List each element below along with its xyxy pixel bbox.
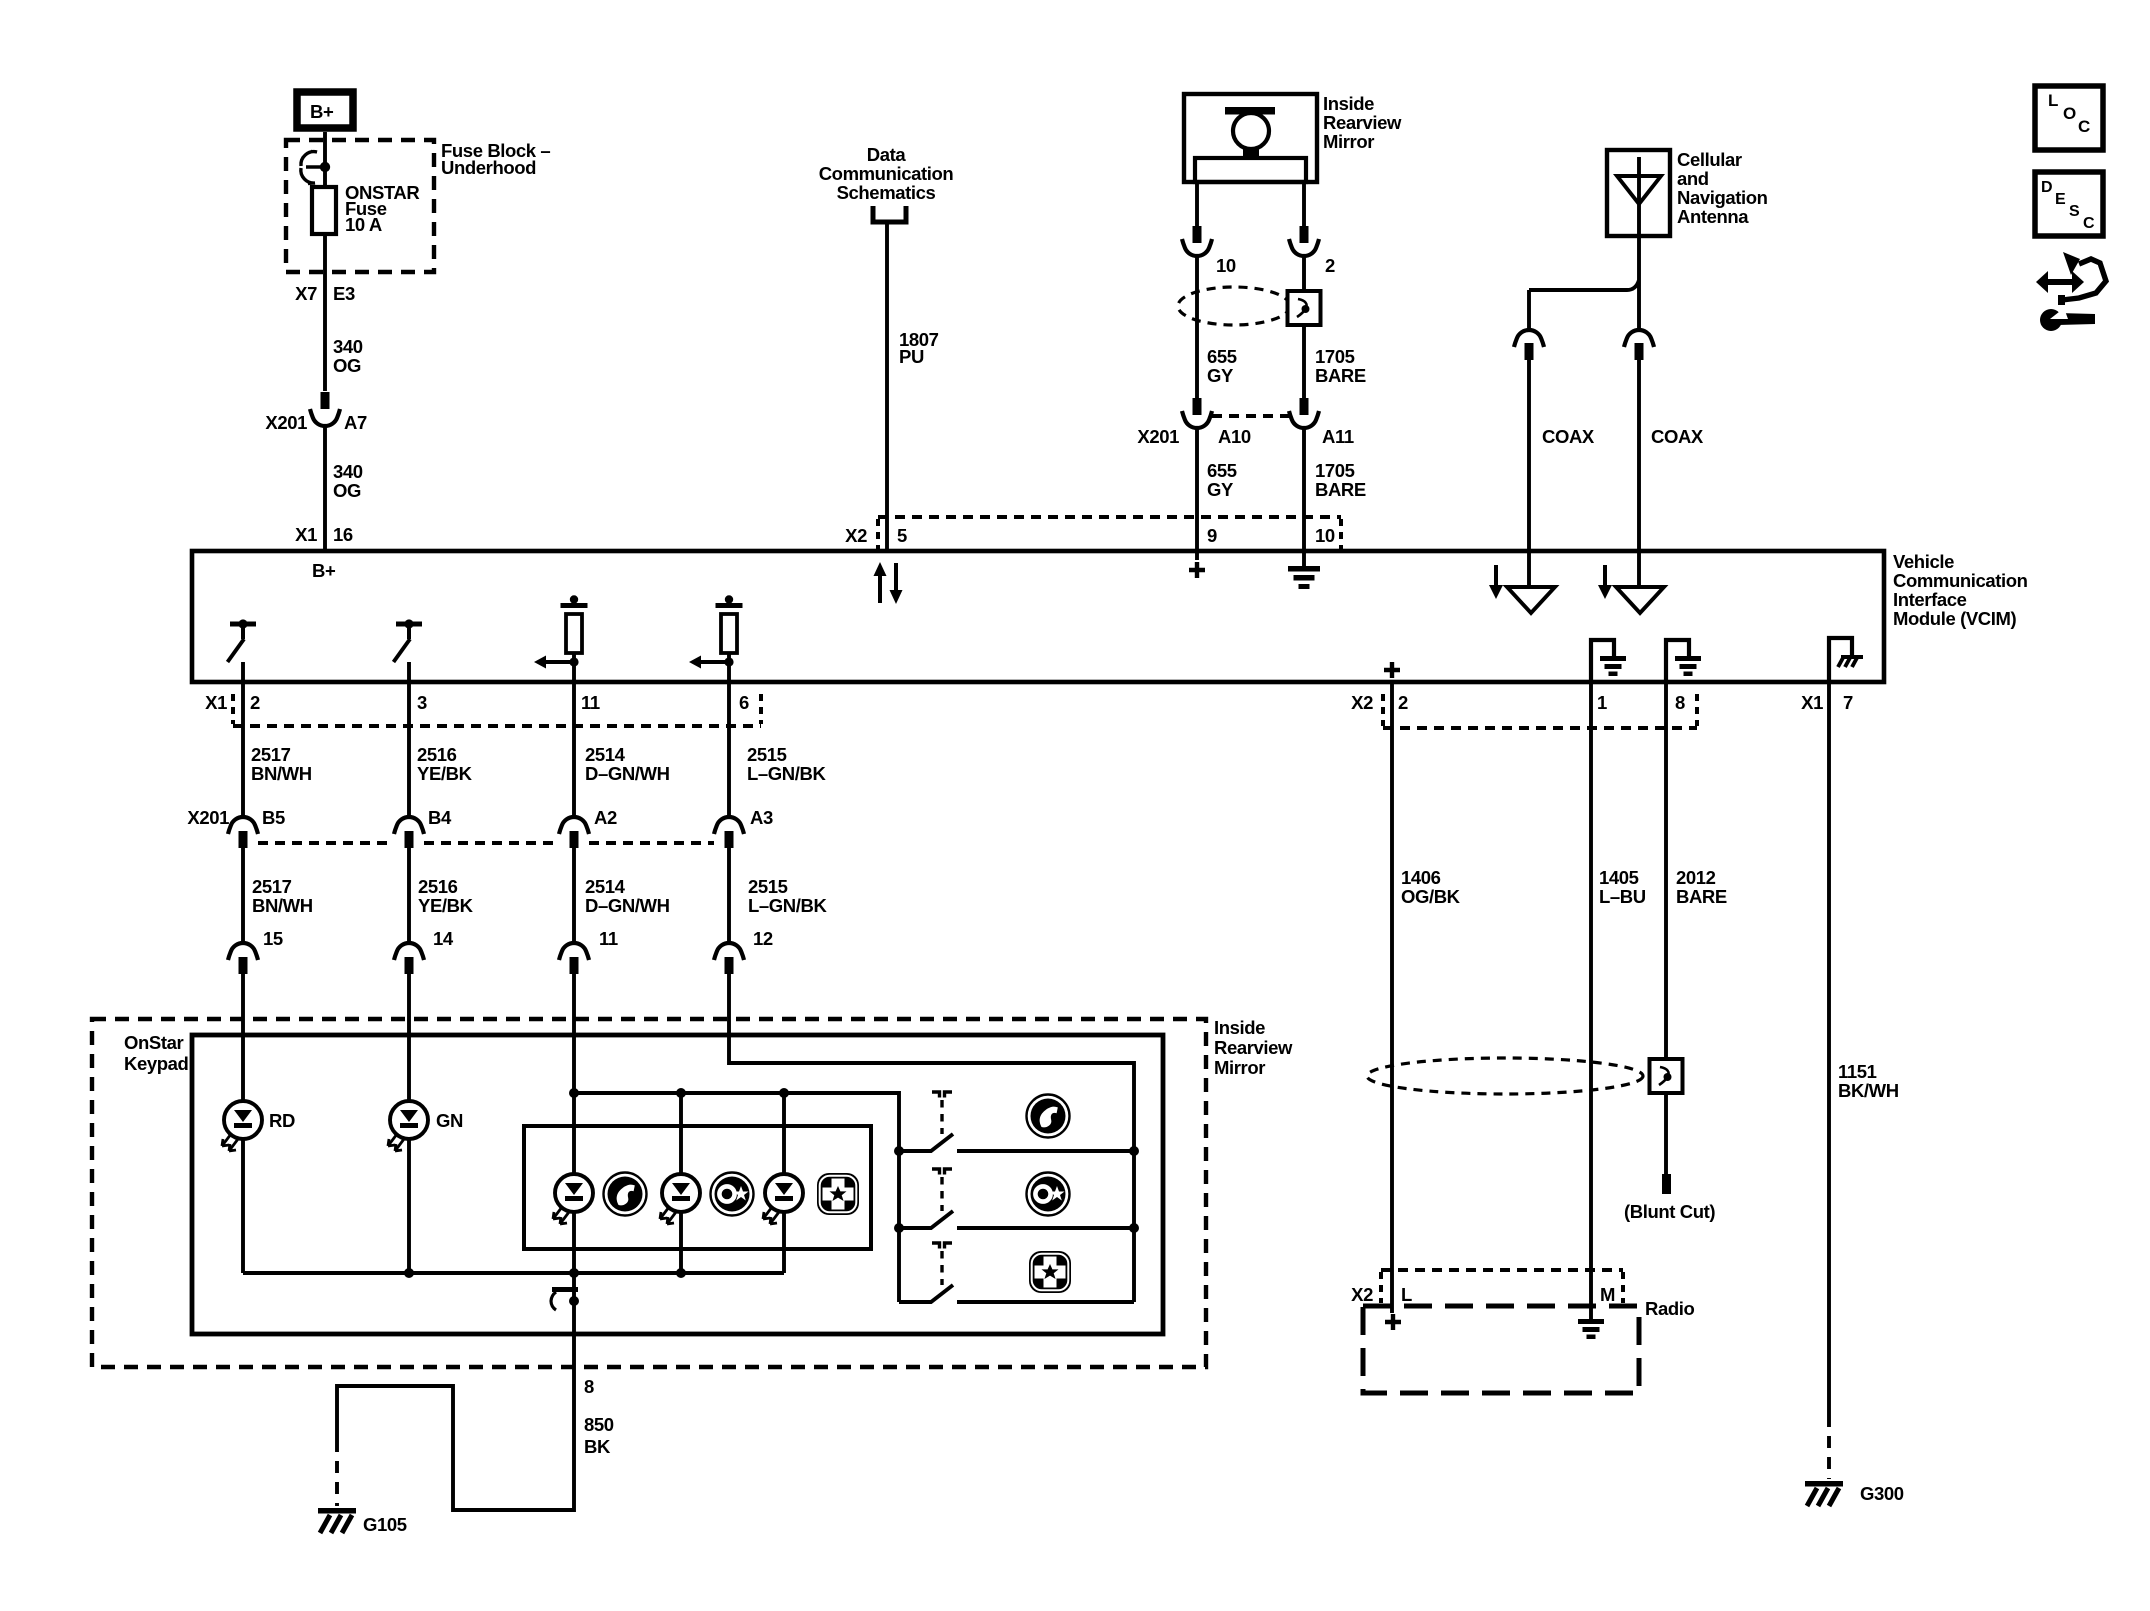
svg-text:D–GN/WH: D–GN/WH: [585, 763, 670, 784]
wire 1705 BARE lower: [1302, 428, 1306, 551]
svg-text:B5: B5: [262, 807, 285, 828]
VCIM label: [1893, 551, 2028, 629]
connector X201 B5: [228, 817, 258, 848]
svg-text:9: 9: [1207, 525, 1217, 546]
ground radio: [1578, 1319, 1604, 1339]
svg-text:2: 2: [1325, 255, 1335, 276]
svg-text:E3: E3: [333, 283, 355, 304]
svg-text:G300: G300: [1860, 1483, 1904, 1504]
svg-text:C: C: [2078, 117, 2090, 136]
svg-text:L: L: [2048, 91, 2058, 110]
cluster box: [524, 1126, 871, 1249]
svg-text:Rearview: Rearview: [1323, 112, 1402, 133]
antenna input symbol left inside VCIM: [1489, 551, 1555, 613]
wire coax left drop: [1527, 290, 1531, 330]
svg-text:1151: 1151: [1838, 1061, 1877, 1082]
svg-text:COAX: COAX: [1542, 426, 1595, 447]
svg-text:A3: A3: [750, 807, 773, 828]
node switch1 left: [894, 1146, 904, 1156]
wire label 2514 D-GN/WH upper: [585, 744, 670, 784]
shield drain box (radio): [1650, 1059, 1683, 1093]
svg-text:7: 7: [1843, 692, 1853, 713]
svg-text:M: M: [1600, 1284, 1615, 1305]
svg-text:G105: G105: [363, 1514, 407, 1535]
svg-text:2514: 2514: [585, 744, 626, 765]
svg-text:10: 10: [1216, 255, 1236, 276]
case clip symbol: [551, 1287, 579, 1310]
svg-text:Vehicle: Vehicle: [1893, 551, 1954, 572]
svg-text:2515: 2515: [747, 744, 787, 765]
wire 2514 upper: [572, 682, 576, 817]
wire A7 to VCIM pin 16: [323, 426, 327, 551]
svg-text:COAX: COAX: [1651, 426, 1704, 447]
wire label 2516 YE/BK lower: [418, 876, 474, 916]
LED cluster 1: [553, 1174, 593, 1224]
connector strip X201 dashed (mirror): [1212, 414, 1289, 418]
switch row OnStar: [899, 1169, 1134, 1228]
wire label 2515 L-GN/BK upper: [747, 744, 826, 784]
wire mirror pin 10: [1195, 182, 1199, 226]
connector strip X2 upper dashed: [878, 517, 1341, 549]
wire mirror pin 2: [1302, 182, 1306, 226]
cellular and navigation antenna box: [1607, 150, 1670, 236]
svg-text:Keypad: Keypad: [124, 1053, 189, 1074]
wire label 1406 OG/BK: [1401, 867, 1461, 907]
wire 1807 PU: [885, 224, 889, 551]
svg-text:5: 5: [897, 525, 907, 546]
svg-text:D–GN/WH: D–GN/WH: [585, 895, 670, 916]
node anode bus LED3: [779, 1088, 789, 1098]
wire 2515 upper: [727, 682, 731, 817]
connector mirror pin 2: [1289, 226, 1319, 256]
svg-text:GY: GY: [1207, 479, 1234, 500]
node anode bus tap: [569, 1088, 579, 1098]
svg-text:15: 15: [263, 928, 283, 949]
svg-text:12: 12: [753, 928, 773, 949]
LOC reference box: [2035, 86, 2103, 150]
svg-text:C: C: [2083, 215, 2095, 232]
switch symbol VCIM pin 3: [394, 619, 423, 662]
connector strip X2 lower dashed: [1383, 694, 1697, 728]
svg-text:1: 1: [1597, 692, 1607, 713]
svg-text:A11: A11: [1322, 426, 1354, 447]
svg-text:D: D: [2041, 179, 2053, 196]
svg-text:and: and: [1677, 168, 1709, 189]
svg-text:BN/WH: BN/WH: [252, 895, 313, 916]
connector coax left: [1514, 330, 1544, 360]
wire 2012 BARE: [1664, 682, 1668, 1174]
wire pin15 into keypad: [241, 974, 245, 1101]
svg-text:10: 10: [1315, 525, 1335, 546]
wire 655 GY lower: [1195, 428, 1199, 551]
node switch2 right: [1129, 1223, 1139, 1233]
node switch2 left: [894, 1223, 904, 1233]
svg-text:1705: 1705: [1315, 346, 1355, 367]
wire label 850 BK: [584, 1414, 614, 1457]
svg-text:OG/BK: OG/BK: [1401, 886, 1461, 907]
svg-text:2516: 2516: [417, 744, 457, 765]
svg-text:Inside: Inside: [1323, 93, 1374, 114]
wire antenna feed: [1529, 236, 1639, 330]
connector X201 A2: [559, 817, 589, 848]
wire 2517 lower: [241, 848, 245, 943]
connector keypad pin 14: [394, 943, 424, 974]
svg-text:BK/WH: BK/WH: [1838, 1080, 1899, 1101]
svg-text:BARE: BARE: [1315, 479, 1366, 500]
svg-text:B+: B+: [312, 560, 336, 581]
wire label 2012 BARE: [1676, 867, 1727, 907]
wire resistor to pin 6: [727, 662, 731, 682]
wire label 2517 BN/WH upper: [251, 744, 312, 784]
wire 1405 L-BU: [1589, 682, 1593, 1319]
svg-text:X201: X201: [265, 412, 307, 433]
service icon wrench: [2040, 308, 2095, 331]
node cathode bus pin8: [569, 1268, 579, 1278]
svg-text:YE/BK: YE/BK: [418, 895, 474, 916]
svg-text:1705: 1705: [1315, 460, 1355, 481]
svg-text:A2: A2: [594, 807, 617, 828]
svg-text:2: 2: [250, 692, 260, 713]
svg-text:X2: X2: [845, 525, 867, 546]
pin label X1 7: [1801, 692, 1853, 713]
connector X201 A11: [1289, 398, 1319, 428]
wire pin14 into keypad: [407, 974, 411, 1101]
svg-text:Navigation: Navigation: [1677, 187, 1768, 208]
connector label X201 A10 A11: [1137, 426, 1353, 447]
svg-text:2517: 2517: [252, 876, 292, 897]
button OnStar (cluster): [711, 1173, 754, 1216]
fuse block underhood dashed box: [286, 140, 434, 272]
wire label 655 GY upper: [1207, 346, 1237, 386]
OnStar keypad label: [124, 1032, 189, 1074]
wire LED1 to bus: [572, 1212, 576, 1273]
off-page bracket: [873, 206, 906, 222]
svg-text:11: 11: [581, 692, 600, 713]
LED red: [222, 1101, 262, 1151]
wire clip to fuse: [323, 167, 327, 187]
LED green: [388, 1101, 428, 1151]
inside rearview mirror box (top): [1184, 94, 1317, 182]
wire dashed to G105: [335, 1440, 339, 1506]
wire label 340 OG lower: [333, 461, 363, 501]
wire dashed to G300: [1827, 1415, 1831, 1479]
wire 1151 BK/WH: [1827, 682, 1831, 1415]
svg-text:2517: 2517: [251, 744, 291, 765]
svg-text:BN/WH: BN/WH: [251, 763, 312, 784]
svg-text:O: O: [2063, 104, 2076, 123]
keypad mirror label: [1214, 1017, 1293, 1078]
data communication schematics label: [819, 144, 954, 203]
svg-text:OG: OG: [333, 355, 361, 376]
connector keypad pin 15: [228, 943, 258, 974]
svg-text:3: 3: [417, 692, 427, 713]
svg-text:8: 8: [1675, 692, 1685, 713]
node anode bus LED2: [676, 1088, 686, 1098]
wire 655 GY upper: [1195, 256, 1199, 398]
resistor symbol VCIM pin 11: [534, 595, 588, 668]
svg-text:6: 6: [739, 692, 749, 713]
wire 1705 BARE upper: [1302, 256, 1306, 398]
svg-text:X7: X7: [295, 283, 317, 304]
wire COAX right: [1637, 360, 1641, 551]
wire pin11 into keypad: [572, 974, 576, 1174]
svg-text:A7: A7: [344, 412, 367, 433]
antenna symbol: [1617, 157, 1661, 236]
svg-text:16: 16: [333, 524, 353, 545]
svg-text:655: 655: [1207, 460, 1237, 481]
antenna label: [1677, 149, 1768, 227]
wire LED2 to bus: [679, 1212, 683, 1273]
svg-text:X1: X1: [1801, 692, 1823, 713]
wire label 2517 BN/WH lower: [252, 876, 313, 916]
svg-text:X1: X1: [205, 692, 227, 713]
svg-text:2514: 2514: [585, 876, 626, 897]
wire label 2516 YE/BK upper: [417, 744, 473, 784]
node cathode bus LED2: [676, 1268, 686, 1278]
svg-text:2516: 2516: [418, 876, 458, 897]
ground G105: [318, 1508, 356, 1533]
wire GN LED to bus: [407, 1139, 411, 1273]
connector X201 B4: [394, 817, 424, 848]
connector mirror pin 10: [1182, 226, 1212, 256]
service icon double arrow: [2036, 271, 2084, 293]
mic plus terminal inside VCIM: [1189, 551, 1205, 578]
LED cluster 2: [660, 1174, 700, 1224]
svg-text:Communication: Communication: [1893, 570, 2028, 591]
wire label 1151 BK/WH: [1838, 1061, 1899, 1101]
svg-text:S: S: [2069, 203, 2080, 220]
button OnStar (switch column): [1027, 1173, 1070, 1216]
pin label X2 5: [845, 525, 907, 546]
pin label X1 2: [205, 692, 260, 713]
DESC reference box: [2035, 172, 2103, 236]
wire resistor to pin 11: [572, 662, 576, 682]
connector X201 A7: [310, 392, 340, 426]
connector coax right: [1624, 330, 1654, 360]
wire 1406 OG/BK: [1390, 682, 1394, 1313]
svg-text:OG: OG: [333, 480, 361, 501]
twisted pair ellipse (radio): [1367, 1058, 1643, 1094]
svg-text:850: 850: [584, 1414, 614, 1435]
svg-text:Inside: Inside: [1214, 1017, 1265, 1038]
button cross (cluster): [817, 1173, 859, 1215]
antenna input symbol right inside VCIM: [1598, 551, 1664, 613]
clip terminal symbol: [301, 151, 325, 184]
ground hook VCIM pin 1: [1591, 640, 1626, 682]
wire label 655 GY lower: [1207, 460, 1237, 500]
button phone (cluster): [604, 1173, 647, 1216]
svg-text:8: 8: [584, 1376, 594, 1397]
connector strip X1 lower dashed: [233, 694, 761, 726]
svg-text:GN: GN: [436, 1110, 463, 1131]
switch symbol VCIM pin 2: [228, 619, 257, 662]
fuse ONSTAR 10A: [312, 187, 336, 234]
svg-text:Rearview: Rearview: [1214, 1037, 1293, 1058]
connector strip X201 dashed (keypad): [258, 841, 714, 845]
svg-text:X201: X201: [187, 807, 229, 828]
node junction at fuse clip: [320, 162, 330, 172]
data bidirectional arrows inside VCIM: [874, 562, 903, 604]
node cathode bus GN: [404, 1268, 414, 1278]
wire cathode to case clip: [572, 1273, 576, 1334]
svg-text:Schematics: Schematics: [837, 182, 936, 203]
svg-text:2: 2: [1398, 692, 1408, 713]
svg-text:Mirror: Mirror: [1214, 1057, 1265, 1078]
switch row phone: [899, 1092, 1134, 1151]
svg-text:GY: GY: [1207, 365, 1234, 386]
shield drain box (mirror): [1288, 291, 1321, 325]
wire label 2514 D-GN/WH lower: [585, 876, 670, 916]
LED cluster 3: [763, 1174, 803, 1224]
svg-text:A10: A10: [1218, 426, 1251, 447]
svg-text:BARE: BARE: [1676, 886, 1727, 907]
connector keypad pin 12: [714, 943, 744, 974]
wire label 1405 L-BU: [1599, 867, 1646, 907]
VCIM module box: [192, 551, 1884, 682]
svg-text:PU: PU: [899, 346, 924, 367]
svg-text:Antenna: Antenna: [1677, 206, 1749, 227]
chassis ground hook VCIM pin 7: [1829, 638, 1863, 682]
svg-text:YE/BK: YE/BK: [417, 763, 473, 784]
service icon outline arrow: [2058, 252, 2106, 305]
svg-text:655: 655: [1207, 346, 1237, 367]
wire anode bus: [574, 1093, 899, 1302]
radio dashed box: [1363, 1306, 1639, 1393]
pin label X2 L: [1351, 1284, 1412, 1305]
button phone (switch column): [1027, 1095, 1070, 1138]
connector X201 A10: [1182, 398, 1212, 428]
OnStar keypad dashed box: [92, 1019, 1206, 1367]
svg-text:Mirror: Mirror: [1323, 131, 1374, 152]
ground G300: [1805, 1481, 1843, 1506]
svg-text:BK: BK: [584, 1436, 611, 1457]
svg-text:Cellular: Cellular: [1677, 149, 1742, 170]
wire fuse to X7 pin: [323, 234, 327, 391]
svg-text:340: 340: [333, 336, 363, 357]
wire 2514 lower: [572, 848, 576, 943]
wire LED3 to bus: [782, 1212, 786, 1273]
wire LED3 drop: [782, 1093, 786, 1174]
resistor symbol VCIM pin 6: [689, 595, 743, 668]
wire label 1705 BARE lower: [1315, 460, 1366, 500]
wire 850 BK below keypad: [337, 1334, 574, 1510]
svg-text:1406: 1406: [1401, 867, 1441, 888]
svg-text:Interface: Interface: [1893, 589, 1967, 610]
svg-text:L: L: [1401, 1284, 1412, 1305]
connector X201 A3: [714, 817, 744, 848]
ground hook VCIM pin 8: [1666, 640, 1701, 682]
svg-text:L–GN/BK: L–GN/BK: [747, 763, 826, 784]
wire RD LED to bus: [241, 1139, 245, 1273]
svg-text:B+: B+: [310, 101, 334, 122]
svg-text:RD: RD: [269, 1110, 295, 1131]
connector strip radio X2 dashed: [1381, 1270, 1623, 1303]
wire label 340 OG upper: [333, 336, 363, 376]
wire label 1807 PU: [899, 329, 939, 367]
svg-text:1405: 1405: [1599, 867, 1639, 888]
fuse block label: [441, 140, 550, 178]
svg-text:BARE: BARE: [1315, 365, 1366, 386]
wire COAX left: [1527, 360, 1531, 551]
svg-text:10 A: 10 A: [345, 214, 382, 235]
wire switch to pin 2: [241, 662, 245, 682]
svg-text:11: 11: [599, 928, 618, 949]
svg-text:(Blunt Cut): (Blunt Cut): [1624, 1201, 1715, 1222]
node switch1 right: [1129, 1146, 1139, 1156]
svg-text:Data: Data: [867, 144, 907, 165]
pin label X2 2: [1351, 692, 1408, 713]
svg-text:OnStar: OnStar: [124, 1032, 183, 1053]
wire 2517 upper: [241, 682, 245, 817]
fuse value label: [345, 182, 419, 235]
plus terminal VCIM X2-2: [1384, 662, 1400, 678]
button cross (switch column): [1029, 1251, 1071, 1293]
svg-text:14: 14: [433, 928, 454, 949]
wire label 2515 L-GN/BK lower: [748, 876, 827, 916]
plus terminal radio: [1385, 1314, 1401, 1330]
svg-text:Communication: Communication: [819, 163, 954, 184]
pin label X7 E3: [295, 283, 355, 304]
blunt cut wire end: [1662, 1174, 1671, 1194]
switch row emergency: [899, 1243, 1134, 1302]
microphone symbol: [1195, 107, 1306, 182]
connector label X201 A7: [265, 412, 367, 433]
svg-text:Radio: Radio: [1645, 1298, 1694, 1319]
wire LED2 drop: [679, 1093, 683, 1174]
wire B+ to fuse block: [323, 132, 327, 167]
connector keypad pin 11: [559, 943, 589, 974]
pin label X1 16: [295, 524, 353, 545]
wire pin12 into keypad: [729, 974, 1134, 1302]
mirror label (top): [1323, 93, 1402, 152]
svg-text:X201: X201: [1137, 426, 1179, 447]
svg-text:Module (VCIM): Module (VCIM): [1893, 608, 2016, 629]
svg-text:L–GN/BK: L–GN/BK: [748, 895, 827, 916]
svg-text:X2: X2: [1351, 692, 1373, 713]
svg-text:B4: B4: [428, 807, 452, 828]
wire 2516 lower: [407, 848, 411, 943]
svg-text:340: 340: [333, 461, 363, 482]
svg-text:Underhood: Underhood: [441, 157, 536, 178]
mic ground inside VCIM: [1288, 551, 1320, 589]
keypad inner box: [192, 1035, 1163, 1334]
wire 2515 lower: [727, 848, 731, 943]
wire label 1705 BARE upper: [1315, 346, 1366, 386]
wire switch to pin 3: [407, 662, 411, 682]
twisted pair ellipse (mirror): [1178, 287, 1290, 325]
B+ battery terminal box: [297, 92, 353, 128]
svg-text:E: E: [2055, 191, 2066, 208]
cathode bus: [243, 1271, 784, 1275]
svg-text:L–BU: L–BU: [1599, 886, 1646, 907]
svg-text:X2: X2: [1351, 1284, 1373, 1305]
svg-text:X1: X1: [295, 524, 317, 545]
svg-text:2012: 2012: [1676, 867, 1716, 888]
svg-text:2515: 2515: [748, 876, 788, 897]
wire 2516 upper: [407, 682, 411, 817]
